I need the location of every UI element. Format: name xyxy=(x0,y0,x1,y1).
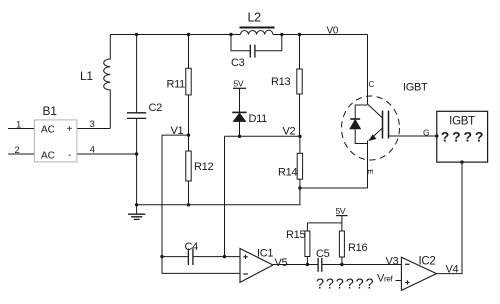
svg-text:4: 4 xyxy=(90,145,95,156)
resistor R12 xyxy=(186,135,191,205)
question marks row xyxy=(316,277,374,293)
svg-text:R11: R11 xyxy=(167,79,186,91)
op-amp IC1 xyxy=(240,249,273,283)
svg-text:L1: L1 xyxy=(80,69,93,83)
node R13 top V0 xyxy=(298,33,301,36)
svg-text:C5: C5 xyxy=(316,248,330,260)
wire 5V bar to R15 R16 xyxy=(307,216,342,223)
svg-text:B1: B1 xyxy=(43,104,58,118)
wire driver output V4 riser xyxy=(437,162,463,274)
wire gate lead xyxy=(389,135,437,137)
node feedback C4 xyxy=(160,255,163,258)
wire pin2 xyxy=(8,153,34,155)
resistor R15 xyxy=(305,223,310,265)
svg-text:R14: R14 xyxy=(278,167,297,179)
node R12 ground xyxy=(187,203,190,206)
transistor IGBT internals xyxy=(368,104,389,188)
wire top rail left xyxy=(110,34,240,36)
svg-text:2: 2 xyxy=(15,145,20,156)
svg-text:5V: 5V xyxy=(234,79,244,89)
resistor R16 xyxy=(339,223,344,265)
capacitor C4 xyxy=(188,249,193,266)
node R14 emitter xyxy=(298,186,301,189)
svg-text:-: - xyxy=(68,150,71,161)
svg-text:R12: R12 xyxy=(194,161,213,173)
svg-text:?: ? xyxy=(316,277,324,293)
svg-text:C4: C4 xyxy=(185,241,199,253)
wire Vref stub xyxy=(396,280,402,282)
svg-text:?: ? xyxy=(356,277,364,293)
svg-text:V3: V3 xyxy=(386,256,399,268)
node R11 top xyxy=(187,33,190,36)
svg-text:????: ???? xyxy=(441,129,486,145)
svg-text:C3: C3 xyxy=(231,57,245,69)
node pin4 C2 xyxy=(135,152,138,155)
transistor IGBT dashed circle xyxy=(342,96,400,160)
svg-text:V2: V2 xyxy=(283,126,296,138)
wire node V1 xyxy=(162,134,189,136)
wire ground rail xyxy=(137,188,300,205)
svg-text:?: ? xyxy=(336,277,344,293)
node gate box xyxy=(435,134,438,137)
svg-text:IC2: IC2 xyxy=(419,256,436,268)
svg-text:G: G xyxy=(423,128,429,138)
node ground C2 xyxy=(135,203,138,206)
wire collector riser xyxy=(367,35,369,105)
resistor R14 xyxy=(297,136,302,188)
resistor R13 xyxy=(297,35,302,137)
svg-text:5V: 5V xyxy=(336,206,346,216)
svg-text:R13: R13 xyxy=(271,76,290,88)
svg-text:V5: V5 xyxy=(275,257,288,269)
IC2 plus xyxy=(405,280,409,284)
wire V2 drop to C4 wire xyxy=(224,136,226,256)
node V1 xyxy=(187,133,190,136)
ground xyxy=(128,205,145,220)
svg-text:R15: R15 xyxy=(286,229,305,241)
node V2 drop C4 xyxy=(223,255,226,258)
capacitor C2 xyxy=(127,35,146,205)
inductor L1 xyxy=(104,35,111,129)
freewheel diode inside IGBT xyxy=(350,105,368,144)
svg-text:?: ? xyxy=(346,277,354,293)
wire C4 branch xyxy=(162,256,240,258)
wire C5 to IC2 xyxy=(322,264,402,266)
svg-text:E: E xyxy=(366,169,375,174)
svg-text:V1: V1 xyxy=(171,125,184,137)
node D11 V2 xyxy=(238,135,241,138)
resistor R11 xyxy=(186,35,191,136)
svg-text:AC: AC xyxy=(41,125,55,136)
5V port underline xyxy=(336,215,348,217)
transformer B1 box xyxy=(34,120,77,162)
svg-text:L2: L2 xyxy=(248,11,262,25)
svg-text:?: ? xyxy=(366,277,374,293)
IGBT driver box xyxy=(437,111,488,162)
svg-text:AC: AC xyxy=(41,151,55,162)
svg-text:D11: D11 xyxy=(249,113,268,125)
wire pin3 B1 to L1 xyxy=(77,128,110,130)
inductor L2 xyxy=(240,28,275,35)
wire V5 to C5 xyxy=(307,264,318,266)
IC2 minus xyxy=(405,263,410,265)
svg-text:R16: R16 xyxy=(348,242,367,254)
zener diode D11 xyxy=(232,88,247,136)
wire emitter to R14 xyxy=(300,187,368,189)
wire node V2 xyxy=(225,135,300,137)
svg-text:?: ? xyxy=(326,277,334,293)
node V2 xyxy=(298,135,301,138)
svg-text:1: 1 xyxy=(16,120,21,131)
node box bottom xyxy=(460,160,463,163)
svg-text:IGBT: IGBT xyxy=(449,116,475,128)
svg-text:3: 3 xyxy=(90,119,95,130)
wire IC1 output V5 xyxy=(273,264,307,266)
svg-text:C2: C2 xyxy=(149,102,163,114)
node R15 V5 xyxy=(306,263,309,266)
IC1 plus xyxy=(243,255,247,259)
svg-text:V4: V4 xyxy=(446,264,459,276)
node L2 right xyxy=(280,33,283,36)
capacitor C3 xyxy=(231,35,282,58)
node C2 top xyxy=(135,33,138,36)
svg-text:C: C xyxy=(369,80,375,89)
node L2 left xyxy=(229,33,232,36)
op-amp IC2 xyxy=(401,257,436,290)
svg-text:V0: V0 xyxy=(327,26,339,37)
wire V1 feedback to IC1 inverting input xyxy=(162,135,240,273)
wire pin4 B1 to C2 xyxy=(77,153,137,155)
IC1 minus xyxy=(243,273,248,275)
svg-text:IC1: IC1 xyxy=(257,248,273,260)
svg-text:Vref: Vref xyxy=(377,273,394,285)
wire pin1 xyxy=(8,128,34,130)
node R16 V3 xyxy=(340,263,343,266)
wire top rail right xyxy=(273,34,368,36)
svg-text:IGBT: IGBT xyxy=(403,82,428,94)
capacitor C5 xyxy=(318,258,322,272)
svg-text:+: + xyxy=(67,124,73,135)
